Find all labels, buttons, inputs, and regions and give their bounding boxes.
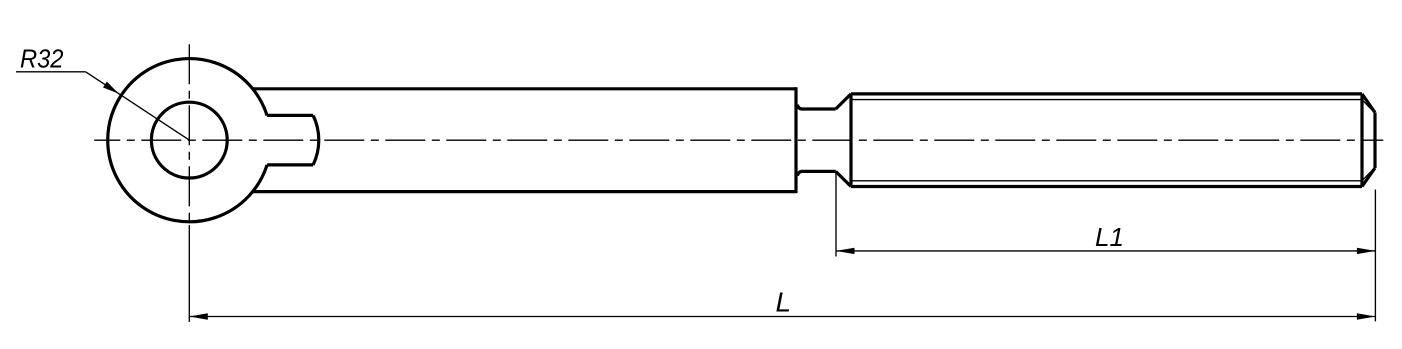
thread start vertical line [849,94,852,187]
L1 dimension line [836,250,1375,252]
L1 arrow left [836,248,855,254]
svg-text:L: L [776,287,792,318]
eye-shank notch top line [267,114,313,117]
neck top line with fillet [798,105,836,110]
svg-text:R32: R32 [20,44,64,74]
end chamfer top diagonal [1362,94,1375,113]
eye inner circle (hole) [151,102,227,178]
thread crest top line [851,92,1362,95]
eye-shank notch end cap arc [313,115,319,164]
L1/L extension line right [1374,190,1376,322]
L1 arrow right [1357,248,1376,254]
shank top line [253,87,796,90]
R32 leader diagonal to eye center [86,72,190,140]
thread runout diagonal top [836,94,851,109]
horizontal centerline [94,139,1383,141]
end chamfer bottom diagonal [1362,168,1375,187]
thread runout diagonal bottom [836,171,851,186]
R32 leader arrowhead on outer circle [103,82,119,94]
thread end vertical line [1360,94,1363,187]
thread root bottom line (minor dia) [853,180,1363,182]
vertical centerline of eye [188,44,190,225]
eye outer circle [108,59,267,222]
thread root top line (minor dia) [853,99,1363,101]
svg-text:L1: L1 [1095,222,1124,252]
L1 extension line left [835,173,837,257]
L dimension line [189,316,1375,318]
shank right edge [794,87,797,193]
root chamfer top thin diagonal [1362,100,1374,112]
L arrow left [189,313,208,319]
neck bottom line with fillet [798,171,836,176]
right end edge vertical [1373,113,1376,169]
L extension line left (below eye centerline) [188,225,190,322]
shank bottom line [253,190,796,193]
eye-shank notch bottom line [267,163,313,166]
root chamfer bottom thin diagonal [1362,169,1374,181]
L arrow right [1357,313,1376,319]
R32 leader horizontal underline [16,71,86,73]
thread crest bottom line [851,185,1362,188]
